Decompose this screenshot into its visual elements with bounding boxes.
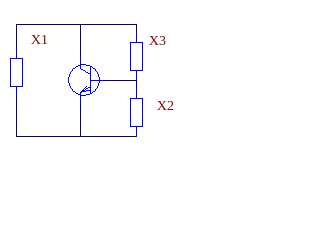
svg-text:X1: X1 — [31, 33, 48, 48]
transistor Q1 body circle, base bar, collector and emitter diagonals with arrow — [68, 64, 100, 96]
wire top rail / left rail / bottom rail / right rail / collector wire / emitter wire / base wire — [16, 24, 137, 137]
resistor X2 box with pins — [10, 32, 143, 137]
svg-text:X3: X3 — [149, 34, 166, 49]
svg-text:X2: X2 — [157, 99, 174, 114]
